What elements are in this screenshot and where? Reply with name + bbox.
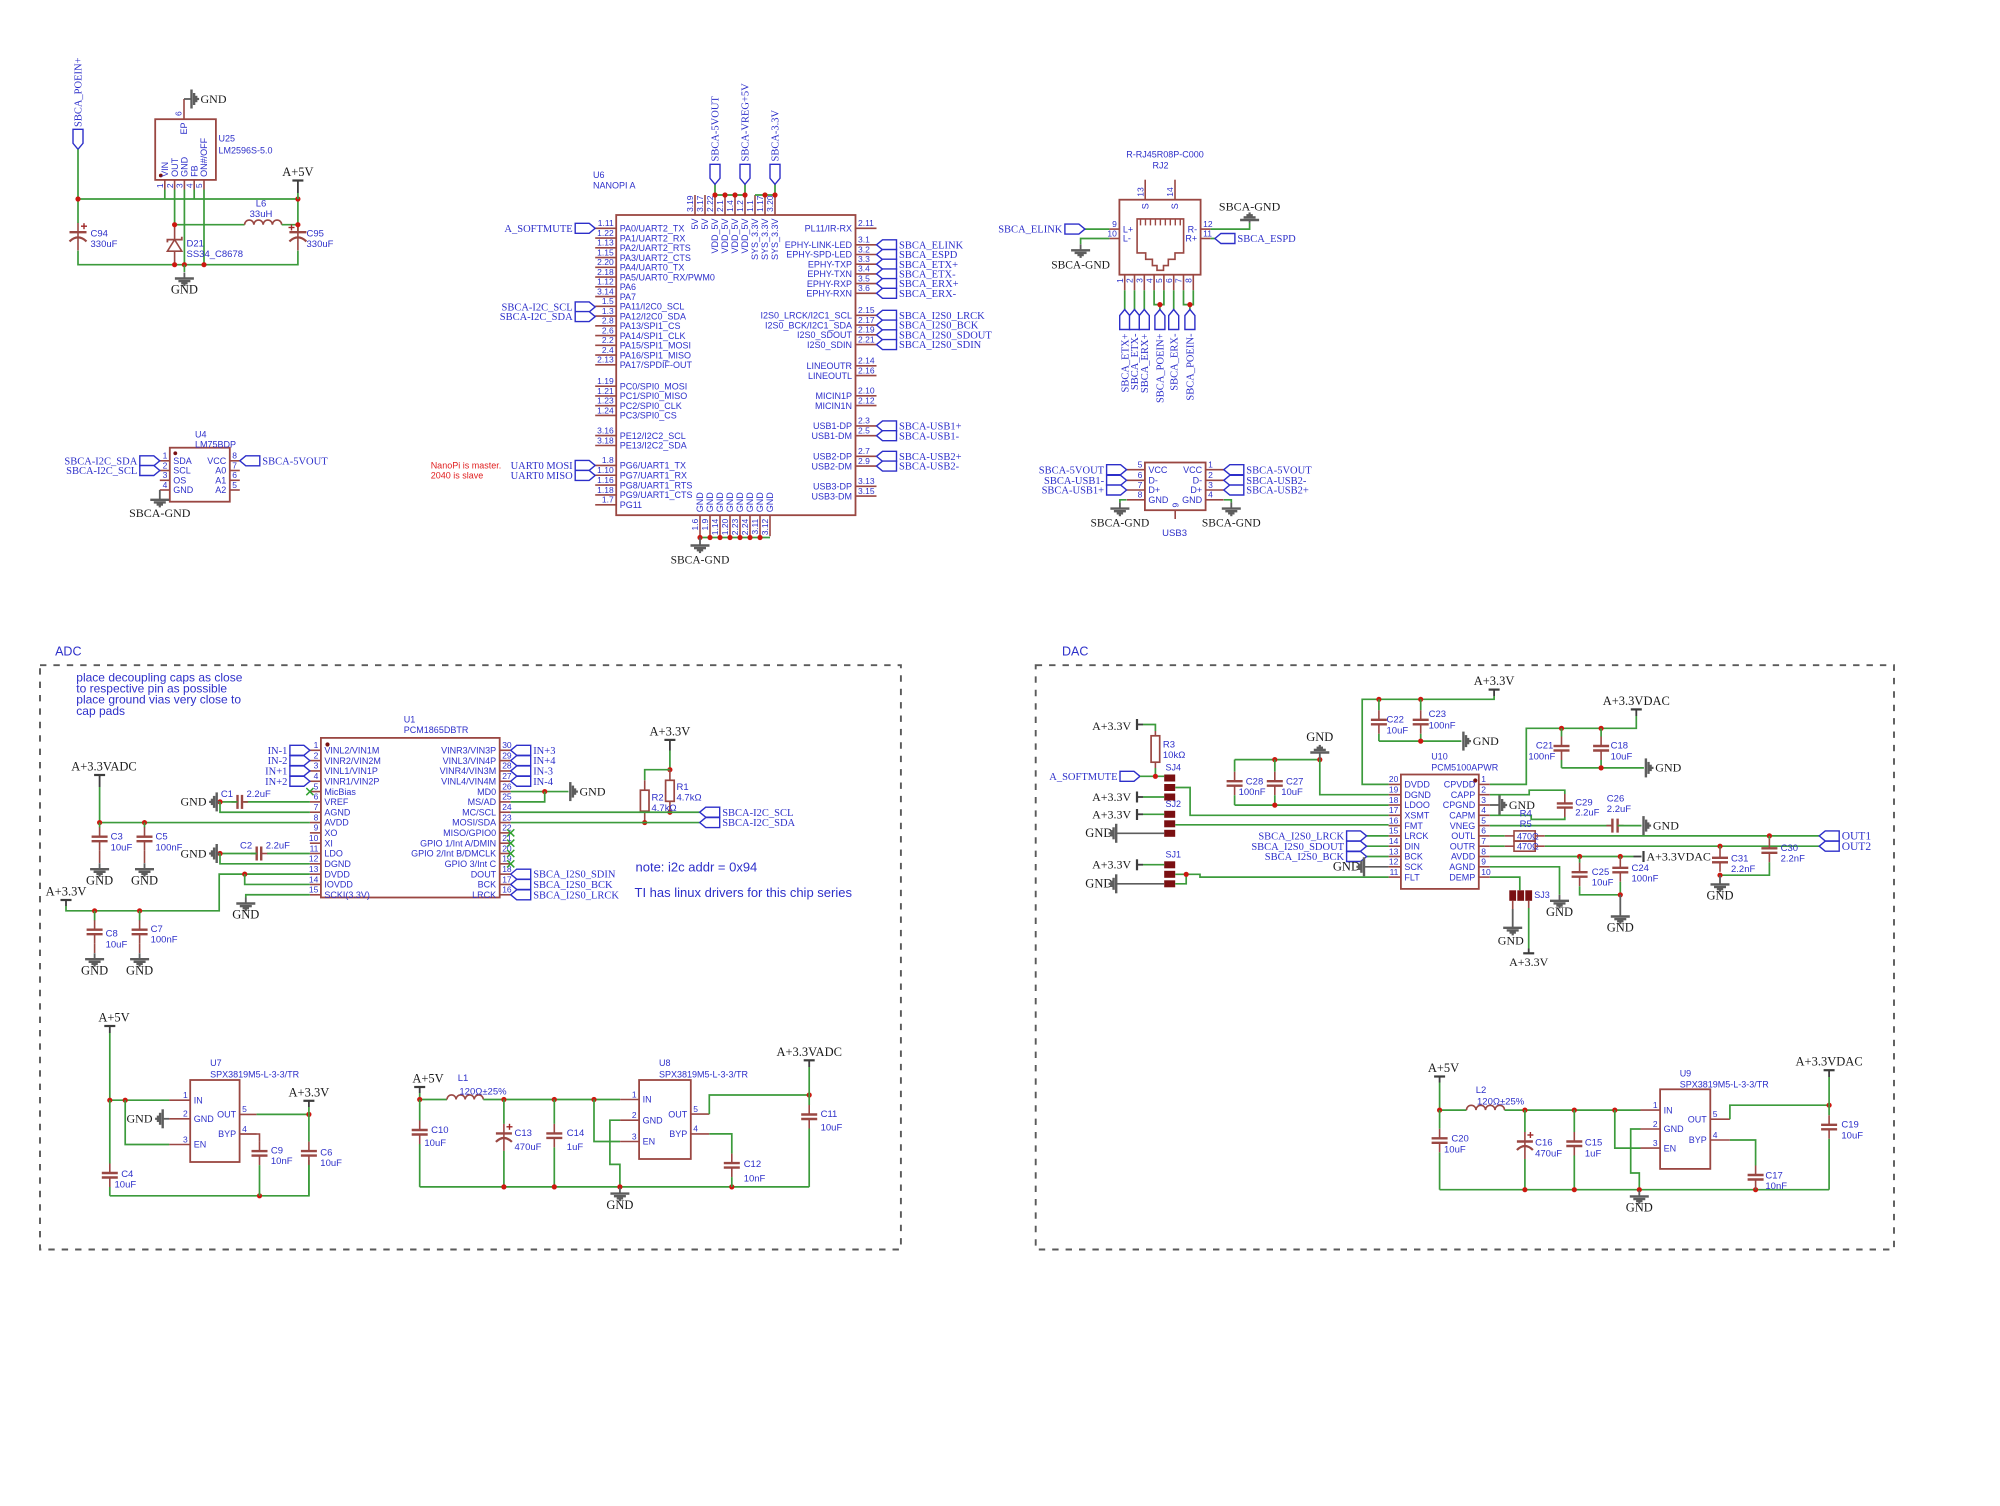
svg-text:3.2: 3.2 (858, 244, 870, 254)
svg-text:MD0: MD0 (477, 787, 496, 797)
svg-text:RJ2: RJ2 (1152, 161, 1168, 171)
svg-text:IOVDD: IOVDD (324, 880, 353, 890)
svg-text:BCK: BCK (478, 880, 497, 890)
svg-text:6: 6 (1481, 826, 1486, 836)
svg-text:C30: C30 (1781, 843, 1798, 854)
svg-text:D-: D- (1193, 476, 1203, 486)
svg-text:FB: FB (189, 165, 199, 177)
svg-text:C9: C9 (271, 1145, 283, 1156)
svg-text:SBCA-USB2+: SBCA-USB2+ (1246, 486, 1309, 497)
svg-text:470uF: 470uF (515, 1142, 542, 1153)
svg-text:PC2/SPI0_CLK: PC2/SPI0_CLK (620, 401, 682, 411)
svg-text:4: 4 (163, 480, 168, 490)
svg-text:A0: A0 (215, 466, 226, 476)
svg-text:EN: EN (643, 1137, 656, 1147)
svg-text:A+5V: A+5V (282, 165, 313, 179)
svg-text:2.6: 2.6 (602, 325, 614, 335)
svg-text:GND: GND (715, 492, 725, 513)
svg-text:3.18: 3.18 (597, 435, 614, 445)
svg-text:GND: GND (181, 795, 207, 809)
svg-text:USB3: USB3 (1162, 528, 1187, 539)
svg-text:VDD_5V: VDD_5V (710, 219, 720, 254)
svg-text:5: 5 (314, 781, 319, 791)
svg-text:C15: C15 (1585, 1138, 1602, 1149)
svg-text:A+5V: A+5V (1428, 1061, 1459, 1075)
svg-text:2: 2 (314, 750, 319, 760)
svg-text:2.2nF: 2.2nF (1731, 864, 1755, 875)
svg-text:13: 13 (1135, 187, 1145, 197)
svg-text:C16: C16 (1535, 1138, 1552, 1149)
svg-text:SBCA-GND: SBCA-GND (1091, 518, 1150, 530)
svg-text:A2: A2 (215, 485, 226, 495)
svg-text:16: 16 (502, 885, 512, 895)
svg-text:A+3.3V: A+3.3V (289, 1085, 330, 1099)
svg-text:3.5: 3.5 (858, 273, 870, 283)
svg-text:LM2596S-5.0: LM2596S-5.0 (219, 146, 273, 156)
svg-text:3.19: 3.19 (685, 195, 695, 212)
svg-text:2.24: 2.24 (740, 518, 750, 535)
svg-text:OUT: OUT (217, 1110, 237, 1120)
svg-text:A+3.3V: A+3.3V (1092, 807, 1131, 821)
svg-text:2.2uF: 2.2uF (266, 841, 290, 852)
svg-text:3.1: 3.1 (858, 235, 870, 245)
svg-text:SBCA-GND: SBCA-GND (1202, 518, 1261, 530)
svg-text:8: 8 (314, 812, 319, 822)
svg-text:1.15: 1.15 (597, 247, 614, 257)
svg-text:PA4/UART0_TX: PA4/UART0_TX (620, 263, 685, 273)
svg-text:GND: GND (1626, 1201, 1653, 1215)
svg-text:3: 3 (1208, 480, 1213, 490)
svg-text:27: 27 (502, 771, 512, 781)
svg-text:PA5/UART0_RX/PWM0: PA5/UART0_RX/PWM0 (620, 272, 715, 282)
svg-text:7: 7 (314, 802, 319, 812)
svg-text:GPIO 1/Int A/DMIN: GPIO 1/Int A/DMIN (420, 838, 496, 848)
svg-text:PL11/IR-RX: PL11/IR-RX (805, 224, 852, 234)
svg-text:VINR1/VIN2P: VINR1/VIN2P (324, 776, 379, 786)
svg-text:5: 5 (1481, 815, 1486, 825)
svg-text:SBCA_I2S0_SDIN: SBCA_I2S0_SDIN (899, 340, 982, 351)
svg-text:SBCA-VREG+5V: SBCA-VREG+5V (741, 83, 752, 162)
svg-text:USB2-DM: USB2-DM (811, 461, 852, 471)
svg-text:C8: C8 (106, 929, 118, 940)
svg-text:2.8: 2.8 (602, 316, 614, 326)
svg-text:A+3.3V: A+3.3V (1509, 955, 1548, 969)
svg-text:6: 6 (1138, 470, 1143, 480)
svg-text:I2S0_LRCK/I2C1_SCL: I2S0_LRCK/I2C1_SCL (760, 311, 852, 321)
svg-text:SBCA-5VOUT: SBCA-5VOUT (262, 456, 328, 467)
svg-text:2.1: 2.1 (715, 200, 725, 212)
svg-text:USB3-DM: USB3-DM (811, 491, 852, 501)
svg-text:C20: C20 (1451, 1133, 1468, 1144)
svg-text:SBCA-5VOUT: SBCA-5VOUT (1246, 465, 1312, 476)
svg-text:GND: GND (755, 492, 765, 513)
svg-text:MicBias: MicBias (324, 787, 356, 797)
svg-text:LINEOUTL: LINEOUTL (808, 371, 852, 381)
svg-text:D+: D+ (1148, 485, 1160, 495)
svg-text:A+3.3V: A+3.3V (650, 724, 691, 738)
svg-text:DAC: DAC (1062, 644, 1088, 658)
svg-text:16: 16 (1389, 815, 1399, 825)
svg-text:GND: GND (1306, 730, 1333, 744)
svg-text:12: 12 (309, 854, 319, 864)
svg-text:5: 5 (693, 1104, 698, 1114)
svg-text:GND: GND (1333, 860, 1360, 874)
svg-text:C12: C12 (744, 1159, 761, 1170)
svg-text:PA0/UART2_TX: PA0/UART2_TX (620, 224, 685, 234)
svg-text:2.20: 2.20 (597, 257, 614, 267)
svg-text:note: i2c addr = 0x94: note: i2c addr = 0x94 (636, 859, 758, 874)
svg-text:C27: C27 (1286, 776, 1303, 787)
svg-text:10uF: 10uF (1611, 751, 1633, 762)
svg-text:2040 is slave: 2040 is slave (431, 471, 484, 481)
svg-text:GPIO 2/Int B/DMCLK: GPIO 2/Int B/DMCLK (411, 849, 496, 859)
svg-text:C17: C17 (1765, 1170, 1782, 1181)
svg-text:SYS_3.3V: SYS_3.3V (770, 219, 780, 261)
svg-text:PA2/UART2_RTS: PA2/UART2_RTS (620, 243, 691, 253)
svg-text:1.8: 1.8 (602, 455, 614, 465)
svg-text:U7: U7 (210, 1058, 222, 1068)
svg-text:11: 11 (1390, 867, 1399, 877)
svg-text:ADC: ADC (55, 644, 81, 658)
svg-text:2: 2 (1653, 1119, 1658, 1129)
svg-text:PCM1865DBTR: PCM1865DBTR (404, 725, 469, 735)
svg-text:U1: U1 (404, 715, 416, 725)
svg-text:L6: L6 (256, 199, 267, 210)
svg-text:cap pads: cap pads (76, 704, 125, 718)
svg-text:2.16: 2.16 (858, 365, 875, 375)
svg-text:GND: GND (695, 492, 705, 513)
svg-text:FMT: FMT (1404, 821, 1423, 831)
svg-text:SJ4: SJ4 (1166, 763, 1182, 773)
svg-text:C5: C5 (156, 832, 168, 843)
svg-text:330uF: 330uF (307, 239, 334, 250)
svg-text:SBCA_POEIN+: SBCA_POEIN+ (74, 57, 85, 127)
svg-text:C18: C18 (1611, 740, 1628, 751)
svg-text:3.12: 3.12 (760, 518, 770, 535)
svg-text:SS34_C8678: SS34_C8678 (187, 249, 244, 260)
svg-text:I2S0_BCK/I2C1_SDA: I2S0_BCK/I2C1_SDA (765, 320, 852, 330)
svg-text:R-RJ45R08P-C000: R-RJ45R08P-C000 (1126, 150, 1204, 160)
svg-text:A1: A1 (215, 476, 226, 486)
svg-text:PC1/SPI0_MISO: PC1/SPI0_MISO (620, 391, 688, 401)
svg-text:PA17/SPDIF-OUT: PA17/SPDIF-OUT (620, 360, 693, 370)
svg-text:SJ1: SJ1 (1166, 849, 1182, 859)
svg-text:4: 4 (1144, 278, 1154, 283)
svg-text:PC3/SPI0_CS: PC3/SPI0_CS (620, 411, 677, 421)
svg-text:GND: GND (643, 1115, 664, 1125)
svg-text:GND: GND (232, 908, 259, 922)
svg-text:UART0 MISO: UART0 MISO (511, 471, 573, 482)
svg-text:A+3.3VDAC: A+3.3VDAC (1796, 1055, 1863, 1069)
svg-text:3.13: 3.13 (858, 476, 875, 486)
svg-text:3: 3 (163, 470, 168, 480)
svg-text:VREF: VREF (324, 797, 349, 807)
svg-text:10uF: 10uF (1387, 726, 1409, 737)
svg-text:VCC: VCC (1148, 465, 1168, 475)
svg-text:2.5: 2.5 (858, 426, 870, 436)
svg-text:5: 5 (1713, 1109, 1718, 1119)
svg-text:1.3: 1.3 (602, 306, 614, 316)
svg-text:1.4: 1.4 (725, 200, 735, 212)
svg-text:2: 2 (632, 1110, 637, 1120)
svg-text:GND: GND (725, 492, 735, 513)
svg-text:1.23: 1.23 (597, 396, 614, 406)
svg-text:C19: C19 (1841, 1120, 1858, 1131)
svg-text:SBCA-I2C_SDA: SBCA-I2C_SDA (722, 818, 795, 829)
svg-text:1.12: 1.12 (597, 277, 614, 287)
svg-text:U8: U8 (659, 1058, 671, 1068)
svg-text:I2S0_SDIN: I2S0_SDIN (807, 340, 852, 350)
svg-text:MICIN1P: MICIN1P (815, 391, 852, 401)
svg-text:VDD_5V: VDD_5V (740, 219, 750, 254)
svg-text:2.3: 2.3 (858, 416, 870, 426)
svg-text:PG8/UART1_RTS: PG8/UART1_RTS (620, 480, 693, 490)
svg-text:1.13: 1.13 (597, 238, 614, 248)
svg-text:20: 20 (1389, 774, 1399, 784)
svg-text:1: 1 (632, 1089, 637, 1099)
svg-text:6: 6 (314, 792, 319, 802)
svg-text:10nF: 10nF (1765, 1181, 1787, 1192)
svg-text:A+3.3V: A+3.3V (1092, 790, 1131, 804)
svg-text:10uF: 10uF (821, 1123, 843, 1134)
svg-text:EP: EP (179, 123, 189, 135)
svg-text:EN: EN (1664, 1143, 1677, 1153)
svg-text:7: 7 (1481, 836, 1486, 846)
svg-text:USB1-DP: USB1-DP (813, 421, 852, 431)
svg-text:1uF: 1uF (567, 1142, 584, 1153)
svg-text:C6: C6 (320, 1147, 332, 1158)
svg-text:GND: GND (745, 492, 755, 513)
svg-text:2.15: 2.15 (858, 305, 875, 315)
svg-text:330uF: 330uF (91, 239, 118, 250)
svg-text:SBCA_POEIN-: SBCA_POEIN- (1186, 333, 1197, 401)
svg-text:USB3-DP: USB3-DP (813, 482, 852, 492)
svg-text:1.24: 1.24 (597, 405, 614, 415)
svg-text:SBCA-5VOUT: SBCA-5VOUT (711, 96, 722, 162)
svg-text:CPGND: CPGND (1443, 800, 1476, 810)
svg-text:1.16: 1.16 (597, 475, 614, 485)
svg-text:3: 3 (1481, 795, 1486, 805)
svg-text:LRCK: LRCK (1404, 831, 1428, 841)
svg-text:SBCA-USB1-: SBCA-USB1- (899, 431, 960, 442)
svg-text:DGND: DGND (1404, 790, 1431, 800)
svg-text:BYP: BYP (218, 1129, 236, 1139)
svg-text:5: 5 (242, 1104, 247, 1114)
svg-text:OS: OS (173, 476, 186, 486)
svg-text:VCC: VCC (207, 456, 227, 466)
svg-text:C95: C95 (307, 229, 324, 240)
svg-text:CAPM: CAPM (1449, 811, 1475, 821)
svg-text:GND: GND (765, 492, 775, 513)
svg-text:2.13: 2.13 (597, 355, 614, 365)
svg-text:IN-4: IN-4 (533, 777, 554, 788)
svg-text:SBCA_ERX-: SBCA_ERX- (899, 289, 957, 300)
svg-text:4: 4 (693, 1124, 698, 1134)
svg-text:10nF: 10nF (271, 1156, 293, 1167)
svg-text:C3: C3 (111, 832, 123, 843)
svg-text:C14: C14 (567, 1128, 584, 1139)
svg-text:A_SOFTMUTE: A_SOFTMUTE (504, 224, 572, 235)
svg-text:SBCA-USB1+: SBCA-USB1+ (1042, 486, 1105, 497)
svg-text:A+3.3VADC: A+3.3VADC (776, 1045, 842, 1059)
svg-text:10uF: 10uF (1281, 787, 1303, 798)
svg-text:1.5: 1.5 (602, 296, 614, 306)
svg-text:2: 2 (1481, 785, 1486, 795)
svg-text:GND: GND (127, 1112, 153, 1126)
svg-text:3.17: 3.17 (695, 195, 705, 212)
svg-text:1.1: 1.1 (745, 200, 755, 212)
svg-text:1: 1 (1481, 774, 1486, 784)
svg-text:R5: R5 (1520, 819, 1532, 830)
svg-text:PA11/I2C0_SCL: PA11/I2C0_SCL (620, 302, 685, 312)
svg-text:GND: GND (1607, 921, 1634, 935)
svg-text:AVDD: AVDD (1451, 852, 1476, 862)
svg-text:PA7: PA7 (620, 292, 636, 302)
svg-text:AGND: AGND (324, 807, 351, 817)
svg-text:C29: C29 (1575, 797, 1592, 808)
svg-text:2.2uF: 2.2uF (247, 789, 271, 800)
svg-text:SDA: SDA (173, 456, 192, 466)
svg-text:3.20: 3.20 (765, 195, 775, 212)
svg-text:GND: GND (1653, 818, 1679, 832)
svg-text:MC/SCL: MC/SCL (462, 807, 496, 817)
svg-text:SPX3819M5-L-3-3/TR: SPX3819M5-L-3-3/TR (1680, 1080, 1770, 1090)
svg-text:C10: C10 (431, 1125, 448, 1136)
svg-text:10uF: 10uF (115, 1179, 137, 1190)
svg-text:XI: XI (324, 838, 333, 848)
svg-text:SBCA-GND: SBCA-GND (1051, 259, 1110, 271)
svg-text:GND: GND (705, 492, 715, 513)
svg-text:3.3: 3.3 (858, 254, 870, 264)
svg-text:L1: L1 (458, 1073, 469, 1084)
svg-text:1.2: 1.2 (735, 200, 745, 212)
svg-text:VDD_5V: VDD_5V (730, 219, 740, 254)
svg-text:17: 17 (502, 874, 512, 884)
svg-text:C4: C4 (121, 1169, 133, 1180)
svg-text:C26: C26 (1607, 794, 1624, 805)
svg-text:1.10: 1.10 (597, 465, 614, 475)
svg-text:10uF: 10uF (1444, 1144, 1466, 1155)
svg-text:OUT2: OUT2 (1842, 841, 1872, 853)
svg-text:1.18: 1.18 (597, 485, 614, 495)
svg-text:3.16: 3.16 (597, 425, 614, 435)
svg-text:2: 2 (163, 460, 168, 470)
svg-text:A+3.3V: A+3.3V (1474, 674, 1515, 688)
svg-text:3.11: 3.11 (750, 518, 760, 534)
svg-text:1.19: 1.19 (597, 376, 614, 386)
svg-text:PA15/SPI1_MOSI: PA15/SPI1_MOSI (620, 341, 691, 351)
svg-text:GND: GND (81, 963, 108, 977)
svg-text:24: 24 (502, 802, 512, 812)
svg-text:OUT: OUT (170, 157, 180, 177)
svg-text:C31: C31 (1731, 853, 1748, 864)
svg-text:C2: C2 (240, 841, 252, 852)
svg-text:5: 5 (232, 480, 237, 490)
svg-text:10: 10 (309, 833, 319, 843)
svg-text:1: 1 (1115, 278, 1125, 283)
svg-text:GPIO 3/Int C: GPIO 3/Int C (445, 859, 497, 869)
svg-text:C22: C22 (1387, 715, 1404, 726)
svg-text:1: 1 (183, 1090, 188, 1100)
svg-text:11: 11 (310, 843, 319, 853)
svg-text:2.2: 2.2 (602, 335, 614, 345)
svg-text:SBCA_ELINK: SBCA_ELINK (998, 225, 1063, 236)
svg-text:VINL2/VIN1M: VINL2/VIN1M (324, 746, 379, 756)
svg-text:A+3.3VDAC: A+3.3VDAC (1603, 694, 1670, 708)
svg-text:LDOO: LDOO (1404, 800, 1430, 810)
svg-text:BYP: BYP (1689, 1135, 1707, 1145)
svg-text:10uF: 10uF (106, 939, 128, 950)
svg-text:4: 4 (184, 183, 194, 188)
svg-text:4: 4 (1713, 1130, 1718, 1140)
svg-text:SPX3819M5-L-3-3/TR: SPX3819M5-L-3-3/TR (659, 1069, 749, 1079)
svg-text:1.21: 1.21 (597, 386, 614, 396)
svg-text:1.20: 1.20 (720, 518, 730, 535)
svg-text:2: 2 (183, 1109, 188, 1119)
svg-text:1: 1 (155, 183, 165, 188)
svg-text:12: 12 (1389, 857, 1399, 867)
svg-text:DEMP: DEMP (1449, 872, 1475, 882)
svg-text:LINEOUTR: LINEOUTR (806, 361, 852, 371)
svg-text:4: 4 (1208, 490, 1213, 500)
svg-text:1.11: 1.11 (598, 218, 614, 228)
svg-text:EPHY-RXP: EPHY-RXP (807, 279, 852, 289)
svg-text:20: 20 (502, 843, 512, 853)
svg-text:A+3.3VADC: A+3.3VADC (71, 760, 137, 774)
svg-text:SJ2: SJ2 (1166, 799, 1182, 809)
svg-text:CPVDD: CPVDD (1444, 780, 1476, 790)
svg-text:5V: 5V (700, 219, 710, 230)
svg-text:2: 2 (165, 183, 175, 188)
svg-text:10uF: 10uF (1592, 878, 1614, 889)
svg-text:100nF: 100nF (1528, 751, 1555, 762)
svg-text:DOUT: DOUT (471, 869, 497, 879)
svg-text:VINL3/VIN4P: VINL3/VIN4P (443, 756, 497, 766)
svg-text:A+3.3V: A+3.3V (1092, 719, 1131, 733)
svg-text:SBCA_ERX+: SBCA_ERX+ (1140, 333, 1151, 393)
svg-text:3.6: 3.6 (858, 283, 870, 293)
svg-text:U4: U4 (195, 430, 207, 440)
svg-text:C7: C7 (151, 924, 163, 935)
svg-text:17: 17 (1389, 805, 1399, 815)
svg-text:SPX3819M5-L-3-3/TR: SPX3819M5-L-3-3/TR (210, 1069, 300, 1079)
svg-text:MOSI/SDA: MOSI/SDA (452, 818, 496, 828)
svg-text:2: 2 (1125, 278, 1135, 283)
svg-text:2.2uF: 2.2uF (1575, 808, 1599, 819)
svg-text:GND: GND (1085, 877, 1112, 891)
svg-text:A+3.3VDAC: A+3.3VDAC (1647, 849, 1711, 863)
svg-text:2.22: 2.22 (705, 195, 715, 212)
svg-text:2: 2 (1208, 470, 1213, 480)
svg-text:C23: C23 (1429, 709, 1446, 720)
svg-text:470uF: 470uF (1535, 1149, 1562, 1160)
svg-text:DIN: DIN (1404, 841, 1420, 851)
svg-text:100nF: 100nF (151, 935, 178, 946)
svg-text:GND: GND (1655, 761, 1681, 775)
svg-text:3: 3 (632, 1131, 637, 1141)
svg-text:I2S0_SDOUT: I2S0_SDOUT (797, 330, 853, 340)
svg-text:2.4: 2.4 (602, 345, 614, 355)
svg-text:C24: C24 (1632, 863, 1649, 874)
svg-text:PE13/I2C2_SDA: PE13/I2C2_SDA (620, 441, 687, 451)
svg-text:GND: GND (201, 92, 227, 106)
svg-text:PG7/UART1_RX: PG7/UART1_RX (620, 470, 687, 480)
svg-text:13: 13 (309, 864, 319, 874)
svg-text:5: 5 (194, 183, 204, 188)
svg-text:TI has linux drivers for this: TI has linux drivers for this chip serie… (635, 885, 853, 900)
svg-text:2.7: 2.7 (858, 446, 870, 456)
svg-text:USB2-DP: USB2-DP (813, 452, 852, 462)
